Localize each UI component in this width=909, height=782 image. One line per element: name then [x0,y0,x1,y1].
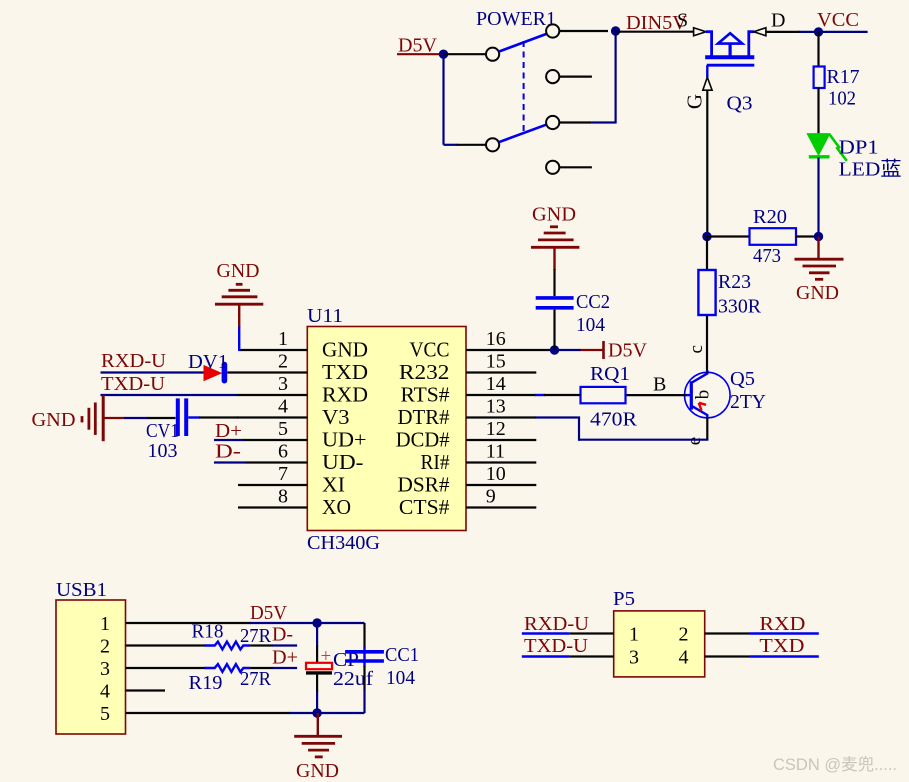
transistor Q3 drain lead [749,30,754,58]
transistor Q5 collector lead [691,370,708,383]
svg-text:5: 5 [278,418,288,440]
node D5V (net label right) [608,340,648,362]
resistor RQ1 designator [590,363,630,385]
ground GND label above CC2 [532,204,576,226]
ground symbol above CC2 (inverted) [531,227,579,248]
junction VCC [814,27,823,36]
pin label D [771,10,785,32]
svg-text:POWER1: POWER1 [476,8,556,30]
IC U11 body [307,327,466,531]
resistor R18 value 27R [240,625,272,647]
watermark [773,755,897,774]
IC U11 pin name RTS# [401,383,450,407]
wire USB pin2 to R18 [126,644,206,646]
wire pin14 to RQ1 [466,394,581,396]
svg-text:104: 104 [576,314,605,336]
pin label S [677,10,688,32]
resistor R17 value 102 [828,88,856,110]
connector USB1 body [56,600,126,734]
wire Q3 gate down to R20 junction [706,90,708,236]
node RXD-U (net label P5) [524,613,590,635]
svg-text:D-: D- [215,441,241,463]
ground symbol top-left (inverted) [215,284,263,304]
wire CC2 to pin16 [553,310,555,350]
wire R20 to GND junction [796,235,819,237]
wire R23 to Q5 collector [706,315,708,371]
capacitor CV1 value 103 [148,440,178,462]
node D5V (net label) [398,35,438,57]
svg-text:10: 10 [486,463,506,485]
wire GND to pin1 [238,304,240,351]
wire junction to D5V port [555,349,604,351]
wire USB pin5 to GND rail [126,712,365,714]
ground symbol right [795,237,844,280]
svg-text:UD+: UD+ [322,428,367,452]
IC U11 pin number 3 [278,373,288,395]
svg-text:GND: GND [32,409,76,431]
connector P5 designator [613,588,635,610]
IC U11 pin number 8 [278,486,288,508]
svg-text:TXD-U: TXD-U [101,373,166,395]
svg-text:GND: GND [322,338,368,362]
capacitor CC1 designator [385,644,419,666]
IC U11 pin number 4 [278,396,288,418]
wire emitter rail to pin13 [579,418,708,441]
switch POWER1 pole 2 common pin [486,138,499,151]
wire D5V to switch junction [397,53,444,55]
capacitor CC1 [345,652,384,661]
wire pin 8 stub [238,506,307,508]
svg-text:RXD-U: RXD-U [524,613,590,635]
wire pin13 to emitter rail [466,416,580,418]
svg-text:3: 3 [100,658,110,680]
svg-text:R18: R18 [192,621,224,643]
resistor R19 [205,664,250,672]
svg-text:8: 8 [278,486,288,508]
svg-text:D5V: D5V [608,340,648,362]
svg-text:102: 102 [828,88,856,110]
transistor Q5 emitter lead [691,406,708,418]
capacitor CV1 [178,398,186,436]
wire VCC down to R17 [817,32,819,67]
wire pin 4 stub [237,416,307,418]
pin label e (rotated) [684,437,705,445]
ground symbol left (rotated) [82,395,103,441]
svg-text:c: c [686,345,707,353]
node D+ (net label) [215,420,242,442]
IC U11 pin name DCD# [396,428,450,452]
resistor R17 designator [827,66,860,88]
wire RXD-U to P5 pin1 [522,632,614,634]
wire base to RQ1 [626,394,693,396]
IC U11 pin number 7 [278,463,288,485]
switch POWER1 lever 2 [499,124,548,142]
capacitor CC1 value 104 [386,667,415,689]
node TXD-U (net label) [101,373,166,395]
svg-text:2: 2 [100,636,110,658]
svg-text:VCC: VCC [817,9,859,31]
svg-text:D: D [771,10,785,32]
svg-text:R17: R17 [827,66,860,88]
resistor R19 designator [189,672,223,694]
IC U11 pin name RXD [322,383,368,407]
wire RXD-U to DV1 [101,371,205,373]
node TXD-U (net label P5) [524,635,589,657]
IC U11 pin number 2 [278,351,288,373]
svg-text:13: 13 [486,396,506,418]
svg-text:Q3: Q3 [727,93,753,115]
svg-text:11: 11 [486,441,505,463]
wire CV1 to pin4 [188,416,238,418]
node RXD (net label) [759,613,805,635]
svg-text:103: 103 [148,440,178,462]
LED DP1 designator [839,137,879,159]
svg-text:XI: XI [322,473,345,497]
transistor Q3 substrate arrow [718,33,742,57]
svg-text:CSDN @麦兜.....: CSDN @麦兜..... [773,755,897,774]
wire USB pin4 stub [126,689,166,691]
IC U11 pin name VCC [410,338,450,362]
wire D+ to pin5 [214,439,244,441]
node D+ (net label USB) [272,647,298,669]
transistor Q3 source lead [706,32,713,58]
resistor R23 [698,270,715,315]
svg-text:104: 104 [386,667,415,689]
IC U11 pin number 1 [278,328,288,350]
LED DP1 [807,134,847,161]
svg-text:TXD: TXD [322,360,368,384]
IC U11 pin number 11 [486,441,505,463]
wire USB pin3 to R19 [126,667,206,669]
wire pin 1 stub [239,349,307,351]
capacitor CP value 22uf [333,668,373,690]
transistor Q5 circle [685,372,731,418]
transistor Q3 gate lead [706,65,708,77]
svg-text:470R: 470R [590,409,638,431]
svg-text:330R: 330R [718,296,762,318]
svg-text:e: e [684,437,705,445]
node RXD-U (net label) [101,350,167,372]
wire P5 pin4 to TXD [705,655,819,657]
IC U11 value CH340G [307,532,380,554]
wire pole1 vertical to pole2 [442,54,444,145]
junction D5V top [312,618,321,627]
svg-text:RXD-U: RXD-U [101,350,167,372]
IC U11 pin name CTS# [399,495,450,519]
wire Q5 collector up [706,371,708,374]
svg-text:D-: D- [272,624,293,646]
node D- (net label USB) [272,624,293,646]
connector P5 pin number 4 [679,647,689,669]
wire pin12 stub [466,439,536,441]
wire pin15 stub [466,371,536,373]
IC U11 pin name R232 [399,360,450,384]
transistor Q5 base bar [690,381,693,410]
svg-text:RXD: RXD [759,613,805,635]
capacitor CP negative plate [306,671,332,674]
wire R18 to D- [250,644,297,646]
wire junction to R23 [706,237,708,271]
resistor R23 value 330R [718,296,762,318]
connector USB1 pin number 3 [100,658,110,680]
svg-text:b: b [693,390,714,400]
wire USB pin1 to D5V junction [126,622,318,624]
svg-text:V3: V3 [322,405,350,429]
IC U11 pin number 6 [278,441,288,463]
IC U11 pin name XO [322,495,351,519]
switch POWER1 throw 2 lower pin [546,161,592,174]
capacitor CP plus sign [321,646,332,667]
svg-text:12: 12 [486,418,506,440]
svg-text:LED蓝: LED蓝 [839,158,902,181]
wire pin 3 stub [237,394,307,396]
capacitor CP positive plate [306,663,332,669]
ground GND label top-left [217,260,260,282]
svg-text:4: 4 [278,396,288,418]
svg-text:DV1: DV1 [188,351,228,373]
svg-text:2: 2 [278,351,288,373]
svg-text:2: 2 [679,624,689,646]
wire pin11 stub [466,461,536,463]
svg-text:S: S [677,10,688,32]
connector P5 body [614,611,705,677]
capacitor CC2 value 104 [576,314,605,336]
power port D5V bar [602,341,605,359]
svg-text:B: B [653,374,666,396]
wire Q5 emitter down [706,417,708,439]
svg-text:3: 3 [629,647,639,669]
svg-text:TXD-U: TXD-U [524,635,589,657]
capacitor CC2 [536,298,574,308]
resistor R20 [750,228,797,245]
capacitor CC2 designator [576,291,610,313]
LED DP1 value LED蓝 [839,158,902,181]
junction G-R23 [702,232,711,241]
svg-text:Q5: Q5 [730,368,755,390]
switch POWER1 label [476,8,556,30]
switch POWER1 pole 1 common pin [486,48,499,61]
wire R17 to DP1 [817,88,819,134]
diode DV1 [204,365,224,381]
svg-text:CV1: CV1 [146,420,179,442]
resistor R20 designator [753,206,787,228]
svg-text:RQ1: RQ1 [590,363,630,385]
IC U11 pin number 5 [278,418,288,440]
transistor Q5 value 2TY [730,391,766,413]
IC U11 pin name XI [322,473,345,497]
svg-text:4: 4 [679,647,689,669]
svg-text:D5V: D5V [250,602,288,624]
svg-text:R20: R20 [753,206,787,228]
transistor Q3 gate bar [707,64,755,67]
transistor Q3 channel bar [705,55,754,59]
capacitor CV1 designator [146,420,179,442]
svg-text:CC1: CC1 [385,644,419,666]
wire throw1 to DIN5V junction [559,30,608,32]
resistor R23 designator [718,271,751,293]
svg-text:GND: GND [796,282,839,304]
svg-text:DP1: DP1 [839,137,879,159]
wire P5 pin2 to RXD [705,632,819,634]
connector P5 pin number 3 [629,647,639,669]
svg-text:6: 6 [278,441,288,463]
wire D5V junction to CC1 branch [317,622,364,624]
connector USB1 pin number 1 [100,613,110,635]
IC U11 pin number 10 [486,463,506,485]
connector USB1 pin number 5 [100,703,110,725]
switch POWER1 throw 2 upper pin [546,116,592,129]
resistor R19 value 27R [240,668,272,690]
svg-text:USB1: USB1 [56,579,107,601]
wire pin10 stub [466,484,536,486]
svg-text:DTR#: DTR# [398,405,450,429]
node TXD (net label) [759,635,804,657]
svg-text:15: 15 [486,351,506,373]
transistor Q5 designator [730,368,755,390]
IC U11 pin name DTR# [398,405,450,429]
transistor Q3 pin S arrow [694,28,706,36]
wire pin 7 stub [238,484,307,486]
wire pin 2 stub [227,371,307,373]
connector USB1 designator [56,579,107,601]
wire D- to pin6 [214,461,247,463]
svg-text:DCD#: DCD# [396,428,450,452]
wire throw2 up to DIN5V junction [592,31,616,124]
svg-text:CTS#: CTS# [399,495,450,519]
svg-text:TXD: TXD [759,635,804,657]
switch POWER1 throw 1 lower pin [546,70,592,83]
svg-text:16: 16 [486,328,506,350]
svg-text:RXD: RXD [322,383,368,407]
wire to R20 [707,235,750,237]
IC U11 pin number 14 [486,373,506,395]
switch POWER1 throw 1 upper pin [546,24,559,37]
junction R20-GND [814,232,823,241]
junction pin16-CC2 [550,345,559,354]
svg-text:CC2: CC2 [576,291,610,313]
IC U11 pin name V3 [322,405,350,429]
transistor Q3 pin D arrow [754,28,766,36]
svg-text:CH340G: CH340G [307,532,380,554]
svg-text:R23: R23 [718,271,751,293]
junction GND bottom [312,708,321,717]
svg-text:U11: U11 [307,305,343,327]
svg-text:14: 14 [486,373,506,395]
svg-text:VCC: VCC [410,338,450,362]
connector USB1 pin number 2 [100,636,110,658]
wire DP1 to R20 junction [817,158,819,237]
wire TXD-U to pin3 [101,394,238,396]
capacitor CP designator [333,649,359,671]
wire TXD-U to P5 pin3 [522,655,614,657]
svg-text:27R: 27R [240,668,272,690]
svg-text:RTS#: RTS# [401,383,450,407]
svg-text:D+: D+ [215,420,242,442]
node D5V (net label USB) [250,602,288,624]
ground GND label left [32,409,76,431]
transistor Q3 designator [727,93,753,115]
svg-text:XO: XO [322,495,351,519]
transistor Q5 emitter arrow (red) [699,403,706,411]
pin label B [653,374,666,396]
svg-text:RI#: RI# [421,450,450,474]
resistor R18 [205,642,250,650]
node D- (net label) [215,441,241,463]
svg-text:9: 9 [486,486,496,508]
svg-text:D+: D+ [272,647,298,669]
IC U11 pin number 13 [486,396,506,418]
wire junction to CP [316,623,318,662]
IC U11 pin number 15 [486,351,506,373]
svg-text:1: 1 [278,328,288,350]
IC U11 pin number 9 [486,486,496,508]
svg-text:GND: GND [217,260,260,282]
svg-text:UD-: UD- [322,450,363,474]
transistor Q3 pin G arrow [703,77,712,90]
wire to switch pole 2 [444,144,487,146]
wire DIN5V to Q3 source [616,31,694,33]
svg-text:7: 7 [278,463,288,485]
IC U11 designator [307,305,343,327]
pin label c (rotated) [686,345,707,353]
wire VCC rail right [819,31,868,33]
svg-text:27R: 27R [240,625,272,647]
junction DIN5V [611,26,620,35]
svg-text:473: 473 [753,245,781,267]
IC U11 pin number 16 [486,328,506,350]
svg-text:R19: R19 [189,672,223,694]
svg-text:GND: GND [532,204,576,226]
wire pin 5 stub [243,439,307,441]
svg-text:4: 4 [100,681,110,703]
connector P5 pin number 2 [679,624,689,646]
resistor R18 designator [192,621,224,643]
svg-text:1: 1 [100,613,110,635]
svg-text:R232: R232 [399,360,450,384]
node DIN5V (net label) [626,12,688,34]
svg-text:2TY: 2TY [730,391,766,413]
connector P5 pin number 1 [629,624,639,646]
diode DV1 designator [188,351,228,373]
resistor R20 value 473 [753,245,781,267]
IC U11 pin name UD- [322,450,363,474]
connector USB1 pin number 4 [100,681,110,703]
pin label G (rotated) [683,94,707,109]
node VCC (net label) [817,9,859,31]
switch POWER1 dashed link [523,41,525,134]
wire junction to switch pole 1 [444,53,487,55]
IC U11 pin name RI# [421,450,450,474]
svg-text:1: 1 [629,624,639,646]
wire CC1 branch down [363,623,365,713]
ground symbol bottom [294,713,342,757]
ground GND label bottom [296,760,339,782]
IC U11 pin name DSR# [398,473,450,497]
svg-text:G: G [683,94,707,109]
IC U11 pin name UD+ [322,428,367,452]
wire pin16 to junction [466,349,550,351]
wire pin9 stub [466,506,536,508]
IC U11 pin name TXD [322,360,368,384]
svg-text:DSR#: DSR# [398,473,450,497]
wire GND to CC2 [553,247,555,296]
svg-text:3: 3 [278,373,288,395]
svg-text:5: 5 [100,703,110,725]
wire Q3 drain to VCC [766,31,819,33]
resistor RQ1 value 470R [590,409,638,431]
junction at D5V [439,50,448,59]
svg-text:GND: GND [296,760,339,782]
